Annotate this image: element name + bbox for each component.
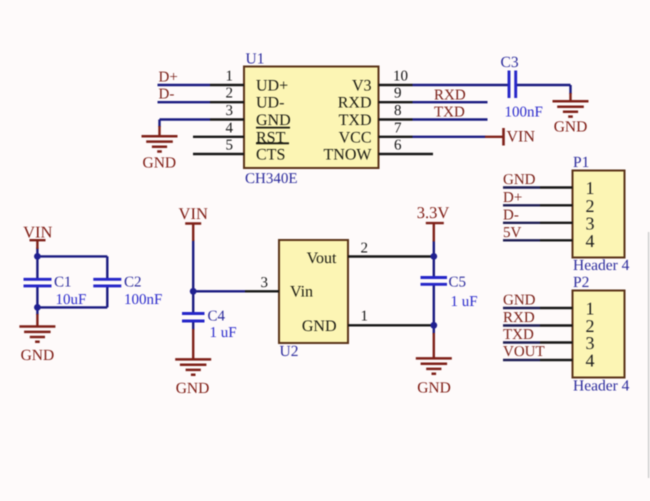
svg-text:GND: GND: [503, 293, 536, 309]
svg-text:TXD: TXD: [434, 105, 465, 121]
svg-text:GND: GND: [21, 347, 55, 364]
svg-text:RXD: RXD: [338, 95, 372, 112]
svg-text:VOUT: VOUT: [503, 344, 545, 360]
svg-text:GND: GND: [176, 380, 210, 397]
svg-text:GND: GND: [554, 119, 588, 136]
svg-text:VCC: VCC: [339, 129, 372, 146]
svg-text:UD-: UD-: [256, 95, 284, 112]
svg-text:1: 1: [361, 308, 369, 324]
svg-text:4: 4: [586, 351, 595, 371]
svg-text:C1: C1: [54, 275, 72, 291]
svg-text:VIN: VIN: [507, 128, 536, 145]
svg-text:Header 4: Header 4: [573, 378, 630, 395]
svg-text:D-: D-: [159, 87, 175, 103]
svg-text:GND: GND: [256, 112, 291, 129]
svg-text:2: 2: [226, 86, 234, 102]
svg-text:GND: GND: [417, 380, 451, 397]
svg-text:RXD: RXD: [503, 310, 535, 326]
svg-text:VIN: VIN: [179, 204, 208, 223]
svg-text:4: 4: [586, 231, 595, 251]
svg-text:V3: V3: [352, 78, 372, 95]
svg-text:8: 8: [394, 103, 402, 119]
svg-text:1: 1: [226, 69, 234, 85]
svg-text:P2: P2: [573, 274, 589, 291]
svg-text:TXD: TXD: [339, 112, 372, 129]
svg-text:100nF: 100nF: [505, 104, 543, 120]
svg-text:6: 6: [394, 138, 402, 154]
svg-text:D-: D-: [503, 207, 519, 223]
svg-text:3: 3: [226, 103, 234, 119]
svg-text:GND: GND: [302, 318, 337, 335]
svg-text:GND: GND: [503, 172, 536, 188]
svg-text:10: 10: [393, 69, 408, 85]
svg-text:RXD: RXD: [434, 87, 466, 103]
svg-text:9: 9: [394, 86, 402, 102]
svg-text:2: 2: [361, 241, 369, 257]
svg-text:RST: RST: [256, 129, 286, 146]
svg-text:CTS: CTS: [256, 147, 285, 164]
svg-text:Header 4: Header 4: [573, 257, 630, 274]
svg-text:C5: C5: [449, 275, 467, 291]
svg-text:VIN: VIN: [23, 223, 52, 242]
svg-text:1 uF: 1 uF: [451, 294, 478, 310]
svg-text:C2: C2: [124, 275, 142, 291]
svg-text:TNOW: TNOW: [324, 147, 373, 164]
svg-text:5: 5: [226, 138, 234, 154]
svg-text:3: 3: [261, 275, 269, 291]
svg-text:4: 4: [226, 120, 234, 136]
svg-text:100nF: 100nF: [124, 292, 162, 308]
svg-text:U2: U2: [280, 343, 299, 360]
svg-text:Vin: Vin: [290, 284, 313, 301]
svg-text:GND: GND: [143, 154, 177, 171]
svg-text:C3: C3: [501, 54, 519, 71]
svg-text:Vout: Vout: [307, 250, 337, 267]
svg-text:5V: 5V: [503, 225, 522, 241]
svg-text:3.3V: 3.3V: [417, 203, 450, 222]
svg-text:U1: U1: [246, 51, 265, 68]
svg-text:1 uF: 1 uF: [210, 325, 237, 341]
svg-text:P1: P1: [573, 154, 589, 171]
svg-text:TXD: TXD: [503, 327, 534, 343]
svg-text:CH340E: CH340E: [245, 171, 298, 187]
svg-text:D+: D+: [159, 69, 178, 85]
svg-text:D+: D+: [503, 190, 522, 206]
svg-text:10uF: 10uF: [56, 292, 87, 308]
svg-text:7: 7: [394, 120, 402, 136]
svg-text:UD+: UD+: [256, 78, 288, 95]
svg-text:C4: C4: [208, 309, 226, 325]
